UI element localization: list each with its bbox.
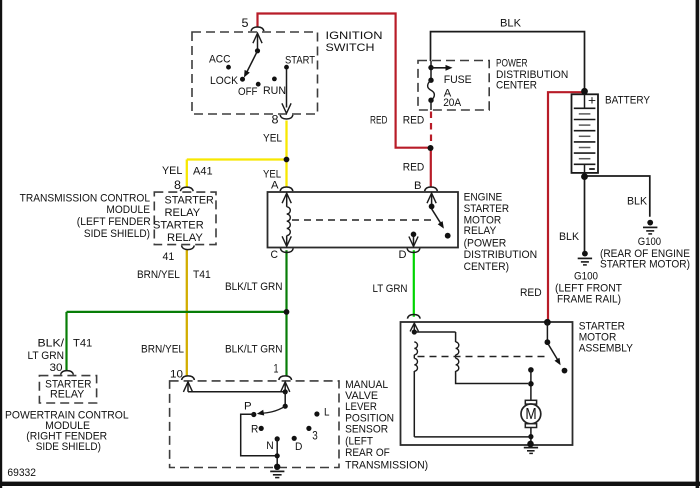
- svg-text:STARTER: STARTER: [153, 220, 204, 232]
- svg-text:BLK/LT GRN: BLK/LT GRN: [225, 344, 283, 356]
- svg-text:ENGINE: ENGINE: [464, 192, 503, 204]
- svg-text:POWER: POWER: [496, 58, 528, 70]
- svg-text:BLK/LT GRN: BLK/LT GRN: [225, 281, 283, 293]
- svg-text:DISTRIBUTION: DISTRIBUTION: [464, 249, 538, 261]
- svg-text:CENTER): CENTER): [464, 261, 510, 273]
- svg-text:20A: 20A: [443, 97, 461, 109]
- svg-text:D: D: [295, 441, 302, 453]
- svg-text:5: 5: [242, 16, 249, 30]
- svg-text:G100: G100: [574, 271, 598, 283]
- svg-text:LOCK: LOCK: [210, 75, 238, 87]
- svg-text:BLK: BLK: [500, 18, 521, 30]
- svg-text:D: D: [399, 249, 407, 261]
- svg-text:T41: T41: [193, 269, 211, 281]
- svg-text:YEL: YEL: [162, 165, 182, 177]
- svg-text:8: 8: [272, 113, 279, 127]
- svg-text:SIDE SHIELD): SIDE SHIELD): [36, 441, 101, 453]
- svg-text:3: 3: [312, 429, 318, 443]
- svg-text:+: +: [588, 93, 596, 108]
- svg-text:RED: RED: [403, 162, 425, 174]
- svg-text:BRN/YEL: BRN/YEL: [137, 269, 180, 281]
- svg-text:10: 10: [170, 369, 183, 381]
- svg-text:41: 41: [163, 251, 175, 263]
- svg-text:RELAY: RELAY: [165, 207, 201, 219]
- svg-text:(POWER: (POWER: [464, 238, 507, 250]
- svg-text:(LEFT FENDER: (LEFT FENDER: [77, 216, 151, 228]
- svg-text:A41: A41: [193, 166, 213, 178]
- svg-text:FRAME RAIL): FRAME RAIL): [557, 294, 621, 306]
- svg-text:C: C: [271, 249, 279, 261]
- svg-text:RELAY: RELAY: [167, 232, 203, 244]
- svg-text:69332: 69332: [7, 467, 36, 479]
- svg-text:1: 1: [274, 362, 279, 376]
- svg-text:ACC: ACC: [209, 54, 231, 66]
- svg-text:LT GRN: LT GRN: [373, 283, 408, 295]
- svg-text:BRN/YEL: BRN/YEL: [141, 344, 184, 356]
- svg-text:FUSE: FUSE: [444, 74, 472, 86]
- svg-text:OFF: OFF: [238, 86, 258, 98]
- svg-text:TRANSMISSION CONTROL: TRANSMISSION CONTROL: [20, 193, 150, 205]
- svg-text:ASSEMBLY: ASSEMBLY: [579, 343, 634, 355]
- svg-text:RED: RED: [403, 115, 425, 127]
- svg-text:A: A: [271, 180, 279, 192]
- svg-text:STARTER: STARTER: [165, 195, 214, 207]
- svg-text:LEVER: LEVER: [345, 401, 377, 413]
- svg-text:SENSOR: SENSOR: [345, 424, 388, 436]
- svg-text:P: P: [244, 400, 252, 412]
- svg-text:BLK/: BLK/: [38, 337, 65, 349]
- svg-text:N: N: [266, 440, 273, 452]
- svg-text:SWITCH: SWITCH: [326, 42, 375, 54]
- svg-text:M: M: [525, 406, 536, 423]
- svg-text:B: B: [414, 180, 422, 192]
- svg-text:RELAY: RELAY: [50, 389, 85, 401]
- svg-text:BATTERY: BATTERY: [605, 95, 650, 107]
- svg-text:RED: RED: [370, 115, 387, 127]
- svg-text:G100: G100: [638, 236, 661, 248]
- svg-text:CENTER: CENTER: [496, 80, 537, 92]
- svg-text:MODULE: MODULE: [106, 204, 150, 216]
- svg-text:L: L: [324, 407, 330, 419]
- svg-text:REAR OF: REAR OF: [345, 447, 390, 459]
- svg-text:T41: T41: [73, 337, 92, 349]
- svg-text:SIDE SHIELD): SIDE SHIELD): [84, 228, 150, 240]
- svg-text:BLK: BLK: [559, 231, 579, 243]
- svg-text:TRANSMISSION): TRANSMISSION): [345, 460, 428, 472]
- svg-text:STARTER MOTOR): STARTER MOTOR): [600, 259, 690, 271]
- svg-text:(LEFT: (LEFT: [345, 435, 373, 447]
- svg-text:RELAY: RELAY: [464, 225, 497, 237]
- svg-text:POSITION: POSITION: [345, 412, 394, 424]
- svg-text:STARTER: STARTER: [464, 203, 510, 215]
- svg-text:IGNITION: IGNITION: [326, 30, 383, 42]
- svg-text:R: R: [251, 423, 258, 435]
- svg-text:LT GRN: LT GRN: [28, 350, 65, 362]
- svg-text:YEL: YEL: [263, 133, 282, 145]
- svg-text:START: START: [285, 55, 315, 67]
- svg-text:BLK: BLK: [627, 196, 647, 208]
- svg-text:RUN: RUN: [263, 85, 286, 97]
- svg-text:30: 30: [50, 362, 63, 374]
- svg-text:RED: RED: [520, 287, 542, 299]
- svg-text:MANUAL: MANUAL: [345, 379, 388, 391]
